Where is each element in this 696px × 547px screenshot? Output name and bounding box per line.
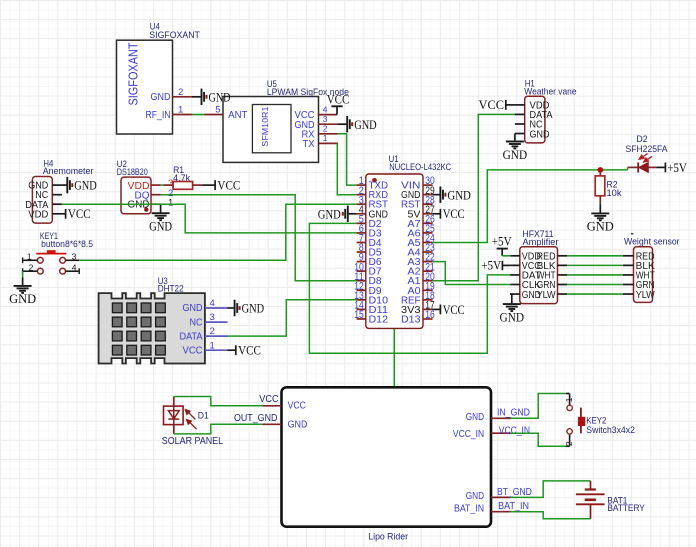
svg-text:VCC: VCC <box>327 91 350 106</box>
VCC flag at H4 VDD <box>65 209 67 219</box>
svg-text:1: 1 <box>323 133 328 143</box>
photodiode D2 light arrows <box>639 154 652 162</box>
wire HFX711 GND down <box>510 294 512 303</box>
svg-text:SOLAR PANEL: SOLAR PANEL <box>162 436 224 447</box>
Lipo Rider right stubs <box>491 417 511 419</box>
svg-text:NUCLEO-L432KC: NUCLEO-L432KC <box>389 162 451 172</box>
wire U1 bottom to Lipo Rider <box>393 329 395 388</box>
solar panel D1 light arrows <box>185 410 196 430</box>
wire R1 to VCC flag <box>202 184 214 186</box>
svg-text:GND: GND <box>74 178 97 193</box>
wire U1 A5 to photodiode node <box>433 170 628 243</box>
wire U5 GND to ground flag <box>338 123 347 125</box>
svg-text:VDD: VDD <box>28 209 48 220</box>
svg-text:VCC: VCC <box>479 97 505 112</box>
resistor R2 top stub <box>599 170 601 176</box>
U5 pin 2 stub <box>319 133 338 135</box>
svg-text:D1: D1 <box>198 410 209 420</box>
wire U2 GND down <box>160 204 162 212</box>
svg-text:3: 3 <box>323 114 328 124</box>
VCC flag at U3 pin 1 <box>235 345 237 355</box>
connector H4 body <box>32 177 52 224</box>
battery BAT1 symbol <box>590 481 592 489</box>
wire U1 A1 to H1 DATA <box>433 114 515 280</box>
D2 node riser to diode row <box>627 167 629 170</box>
U3 pin 4 stub <box>205 307 228 309</box>
D2 anode stub <box>628 166 639 168</box>
svg-text:Switch3x4x2: Switch3x4x2 <box>586 425 635 435</box>
sensor U2 DS18B20 body <box>121 177 151 214</box>
KEY1 pin 2 <box>23 270 38 272</box>
mcu U1 NUCLEO-L432KC body <box>366 174 423 328</box>
svg-text:D2: D2 <box>637 134 648 144</box>
wire Lipo BAT_IN to battery minus <box>511 512 591 519</box>
svg-text:GND: GND <box>288 419 308 430</box>
+5V flag at HFX711 VDD <box>497 248 508 250</box>
svg-text:10k: 10k <box>607 188 623 198</box>
sensor U3 DHT22 body <box>99 293 205 363</box>
wire U5 RX to U1 TXD <box>338 134 357 185</box>
H1 pin DATA stub <box>515 113 525 115</box>
VCC flag at U5 pin 4 <box>336 106 338 114</box>
svg-text:GND: GND <box>530 129 550 140</box>
wire Lipo BT_GND to battery plus <box>511 481 591 498</box>
svg-text:+5V: +5V <box>667 160 687 175</box>
wire D2 node jog <box>599 169 601 171</box>
resistor R2 bottom stub <box>599 196 601 204</box>
KEY2 pin 1 <box>566 393 570 395</box>
R1 right stub <box>193 184 203 186</box>
svg-text:GND: GND <box>503 147 528 162</box>
solar panel D1 diode <box>173 397 175 407</box>
svg-text:VCC: VCC <box>443 302 465 317</box>
svg-text:BATTERY: BATTERY <box>607 503 644 513</box>
svg-text:SIGFOXANT: SIGFOXANT <box>149 30 200 40</box>
svg-text:NC: NC <box>190 317 203 328</box>
svg-text:Weight sensor: Weight sensor <box>624 236 680 246</box>
svg-text:GND: GND <box>242 301 265 316</box>
wire D1 bottom to Lipo GND <box>174 424 263 434</box>
KEY1 pin 4 <box>66 270 80 272</box>
wire KEY1 pin 2 to ground <box>22 271 24 277</box>
solar panel D1 bottom stub <box>173 425 175 434</box>
photodiode D2 symbol <box>637 162 639 172</box>
wire H4 DATA to U1 D3 <box>62 204 357 233</box>
+5V flag at HFX711 VCC <box>501 261 503 270</box>
KEY1 contact circles <box>37 257 43 263</box>
connector Weight sensor label <box>631 233 634 235</box>
U3 pin 1 stub <box>205 349 228 351</box>
svg-text:OUT_GND: OUT_GND <box>234 413 277 424</box>
U3 pin 3 stub <box>205 321 228 323</box>
svg-text:GND: GND <box>318 206 341 221</box>
KEY2 pin 2 <box>566 445 570 447</box>
KEY1 actuator <box>36 253 66 255</box>
VCC flag at U1 pin 27 <box>439 209 441 219</box>
ground flag at R2 <box>591 212 609 214</box>
svg-text:DATA: DATA <box>180 331 203 342</box>
U2 pin 3 stub <box>151 184 161 186</box>
ground flag at U4 pin 2 <box>201 89 203 105</box>
svg-text:Amplifier: Amplifier <box>523 237 559 247</box>
U5 pin 3 stub <box>319 123 338 125</box>
VCC flag at R1 <box>214 180 216 190</box>
KEY2 actuator <box>580 408 582 434</box>
wire U3 DATA to U1 D10 <box>228 300 357 336</box>
svg-text:YLW: YLW <box>537 290 557 301</box>
ground flag at U1 pin 4 <box>347 206 349 222</box>
svg-text:BAT_IN: BAT_IN <box>498 501 529 512</box>
wire +5V to VCC <box>502 264 510 266</box>
wire H1 GND down to ground flag <box>514 134 516 141</box>
wire U4 GND to ground flag <box>192 96 201 98</box>
ground flag at U3 pin 4 <box>234 300 236 316</box>
svg-text:DS18B20: DS18B20 <box>117 167 148 177</box>
svg-text:SIGFOXANT: SIGFOXANT <box>126 42 141 105</box>
KEY2 contact circles <box>567 405 572 410</box>
wire D1 top to Lipo VCC <box>174 397 263 406</box>
H1 pin GND stub <box>515 133 525 135</box>
svg-text:Lipo Rider: Lipo Rider <box>368 532 408 542</box>
U3 sensor grille squares <box>112 303 122 313</box>
svg-text:VCC: VCC <box>259 394 278 405</box>
svg-text:YLW: YLW <box>636 290 656 301</box>
svg-text:GND: GND <box>587 219 614 234</box>
svg-text:SFH225FA: SFH225FA <box>626 144 668 154</box>
wire Lipo VCC_IN to KEY2 pin 2 <box>511 433 566 446</box>
U5 inner chip SFM10R1 <box>252 105 291 153</box>
ground flag at HFX711 GND <box>503 303 521 305</box>
ground flag at U5 pin 3 <box>346 116 348 132</box>
wire U2 VDD to R1 <box>161 184 164 186</box>
svg-text:VCC: VCC <box>68 206 91 221</box>
H1 pin NC stub <box>515 123 525 125</box>
wire U5 TX to U1 RXD <box>337 143 356 194</box>
wire U1 3V3 pin 17 to VCC flag <box>433 308 440 310</box>
svg-text:GND: GND <box>447 187 471 202</box>
VCC flag at U1 pin 17 <box>439 305 441 315</box>
svg-text:Anemometer: Anemometer <box>43 166 94 176</box>
module U5 body <box>223 97 319 163</box>
U5 pin ANT stub <box>204 114 223 116</box>
connector H1 body <box>525 96 545 143</box>
U1 pin 1 marker dot <box>372 178 377 183</box>
wire U2 DQ to U1 D8 <box>161 195 357 281</box>
svg-text:DHT22: DHT22 <box>158 283 184 293</box>
+5V flag at D2 <box>664 163 666 173</box>
HFX711 left pin stubs <box>510 255 520 257</box>
amplifier HFX711 body <box>520 247 558 304</box>
resistor R2 body <box>595 176 605 196</box>
HFX711 right pin stubs <box>558 255 568 257</box>
svg-text:VCC: VCC <box>217 178 240 193</box>
svg-text:1: 1 <box>168 197 173 208</box>
svg-text:IN_GND: IN_GND <box>497 408 530 419</box>
U5 pin 4 stub <box>319 114 338 116</box>
power module Lipo Rider body <box>282 387 492 526</box>
svg-text:RF_IN: RF_IN <box>146 110 171 121</box>
svg-text:GND: GND <box>9 291 36 306</box>
U5 pin 1 stub <box>319 142 338 144</box>
U4 pin GND stub <box>173 96 192 98</box>
H4 pin VDD stub <box>52 213 62 215</box>
svg-text:VCC: VCC <box>183 346 203 357</box>
solar panel D1 body <box>164 406 184 425</box>
H4 pin GND stub <box>52 184 62 186</box>
ground flag at U1 pin 29 <box>439 186 441 202</box>
junction at R2 top <box>598 167 604 173</box>
ground flag at U2 pin 1 <box>152 212 170 214</box>
D2 cathode stub <box>648 166 656 168</box>
svg-text:D12: D12 <box>369 314 389 325</box>
svg-text:VCC_IN: VCC_IN <box>499 425 530 436</box>
wire +5V to VDD <box>502 255 510 257</box>
wire R2 to ground <box>599 204 601 213</box>
svg-text:VCC: VCC <box>238 343 261 358</box>
wire RF_IN to ANT <box>192 114 204 116</box>
svg-text:VCC: VCC <box>443 206 465 221</box>
H4 pin DATA stub <box>52 203 62 205</box>
U2 pin 2 stub <box>151 194 161 196</box>
U2 pin 1 stub <box>151 203 161 205</box>
svg-text:+5V: +5V <box>492 234 512 249</box>
KEY1 pin 3 <box>66 259 80 261</box>
connector Weight sensor body <box>634 247 653 303</box>
wire U1 D2 to HFX711 DAT <box>309 223 510 353</box>
wire Lipo IN_GND to KEY2 pin 1 <box>511 394 566 419</box>
Weight sensor pin stubs <box>623 255 634 257</box>
svg-text:+5V: +5V <box>481 258 502 273</box>
U2 junction dot <box>144 207 148 211</box>
KEY1 pin 1 <box>23 259 38 261</box>
U3 pin 2 stub <box>205 335 228 337</box>
svg-text:GND: GND <box>466 491 484 502</box>
wire U1 A3 to HFX711 CLK <box>433 262 511 285</box>
U1 right pin stubs <box>423 184 433 186</box>
svg-text:KEY2: KEY2 <box>586 415 606 425</box>
svg-text:GND: GND <box>354 117 377 132</box>
svg-text:VCC: VCC <box>288 401 306 412</box>
svg-text:BAT_IN: BAT_IN <box>454 504 484 515</box>
svg-text:D13: D13 <box>401 314 421 325</box>
svg-text:VCC_IN: VCC_IN <box>453 429 484 440</box>
wire U3 GND to ground flag <box>228 307 234 309</box>
wire H4 GND to ground flag <box>62 184 67 186</box>
svg-text:1: 1 <box>564 397 574 402</box>
ground flag at KEY1 pin 2 <box>14 285 32 287</box>
svg-text:GND: GND <box>500 309 525 324</box>
wire U1 GND pin 29 to ground flag <box>433 194 440 196</box>
wire H1 VDD to VCC flag <box>506 104 515 106</box>
wires HFX711 to Weight sensor <box>567 255 623 257</box>
Lipo Rider left stubs <box>262 405 281 407</box>
antenna U4 SIGFOXANT body <box>117 40 173 134</box>
svg-text:button8*6*8.5: button8*6*8.5 <box>41 239 93 249</box>
wire KEY1 pin 3 to U1 RST <box>79 204 357 260</box>
svg-text:GND: GND <box>466 412 484 423</box>
resistor R1 body <box>173 182 193 190</box>
VCC flag at H1 VDD <box>505 100 507 110</box>
U1 left pin stubs <box>357 184 366 186</box>
U4 pin RF_IN stub <box>173 114 193 116</box>
wire U1 GND pin 4 to ground flag <box>349 213 357 215</box>
H1 pin VDD stub <box>515 104 525 106</box>
svg-text:ANT: ANT <box>228 110 247 121</box>
H4 pin NC stub <box>52 194 62 196</box>
R1 left stub <box>164 184 174 186</box>
svg-text:2: 2 <box>323 124 328 134</box>
svg-text:Weather vane: Weather vane <box>524 87 576 97</box>
wire U1 5V pin 27 to VCC flag <box>433 213 440 215</box>
svg-text:2: 2 <box>564 441 574 446</box>
svg-text:SFM10R1: SFM10R1 <box>260 106 270 146</box>
svg-text:GND: GND <box>209 89 231 104</box>
ground flag at H1 GND <box>506 141 524 143</box>
wire D2 to +5V flag <box>656 166 665 168</box>
svg-text:GND: GND <box>151 92 171 103</box>
svg-text:GND: GND <box>183 303 203 314</box>
ground flag at H4 GND <box>66 177 68 193</box>
svg-text:TX: TX <box>303 139 315 150</box>
svg-text:BT_GND: BT_GND <box>497 487 532 498</box>
svg-text:GND: GND <box>149 219 172 234</box>
